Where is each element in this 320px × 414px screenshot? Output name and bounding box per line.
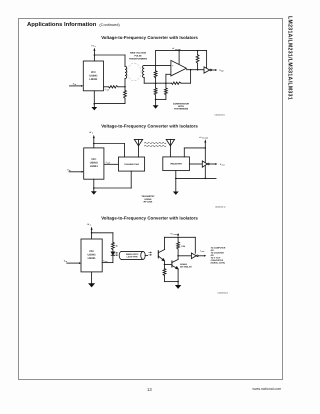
output arrow S2 — [209, 163, 217, 165]
VFC block U6 (LM331) — [81, 239, 102, 272]
input VIN S2 — [67, 168, 83, 173]
wire R1 to primary S1 — [118, 86, 126, 88]
label telemetry — [141, 195, 155, 203]
svg-text:RECEIVER: RECEIVER — [171, 163, 183, 166]
resistor R1 S1 — [109, 86, 118, 88]
resistor R2 S1 — [124, 90, 127, 98]
output node circle S3 — [197, 255, 199, 257]
wire +VS to transmitter S2 — [93, 143, 124, 157]
svg-text:FIBER OPTIC: FIBER OPTIC — [126, 253, 139, 256]
buffer U5 S2 — [202, 161, 207, 167]
label 2N3904 — [180, 263, 192, 269]
LED D1 — [111, 250, 118, 263]
wire FOUT to transmitter S2 — [104, 163, 119, 165]
schematic 3 title — [101, 216, 198, 221]
schematic 1 title — [101, 35, 198, 40]
ground rail S3 — [165, 281, 179, 283]
svg-text:TRANSFORMERS: TRANSFORMERS — [129, 57, 148, 60]
svg-text:WIDE VOLTAGE: WIDE VOLTAGE — [130, 52, 147, 55]
svg-text:3.3k: 3.3k — [181, 245, 186, 248]
svg-text:PULSE: PULSE — [134, 55, 142, 58]
label VOUT S1 — [219, 69, 224, 73]
radio waves between antennas — [144, 143, 166, 147]
wire Q1 emitter to Q2 base S3 — [165, 263, 172, 265]
rail +V pulsed S3 — [165, 232, 196, 238]
transmitter block A1 — [119, 157, 145, 171]
supply +VS node S1 — [91, 45, 95, 62]
svg-text:DS009739-11: DS009739-11 — [215, 113, 225, 116]
wire LED to FOUT S3 — [102, 262, 113, 264]
wire R4 to ground S1 — [155, 95, 157, 100]
ground G2 S1 — [153, 99, 159, 108]
op-amp U2 comparator — [171, 51, 187, 77]
output node circle S1 — [210, 69, 212, 71]
ground G6 S3 — [175, 282, 181, 289]
svg-text:−: − — [172, 75, 174, 77]
svg-text:HYSTERESIS: HYSTERESIS — [174, 107, 189, 110]
transformer T1 primary coil — [125, 66, 127, 78]
svg-text:OUT: OUT — [201, 251, 204, 253]
svg-text:LM331: LM331 — [89, 78, 98, 81]
supply +VS node S2 — [89, 131, 95, 148]
figure number DS2 — [215, 205, 225, 208]
schematic 2 title — [101, 123, 198, 128]
svg-text:DS009739-13: DS009739-13 — [218, 292, 228, 295]
VFC block U1 (LM331) — [83, 61, 103, 91]
phototransistor Q1 — [158, 237, 165, 265]
svg-text:TRANSMITTER: TRANSMITTER — [124, 163, 139, 166]
svg-text:OUT: OUT — [221, 70, 224, 73]
svg-text:OUT: OUT — [106, 90, 109, 92]
footer page number 13 — [147, 387, 152, 392]
wire feedback S1 — [181, 70, 191, 84]
transformer T1 label — [129, 52, 148, 61]
svg-text:COMPARATOR: COMPARATOR — [173, 102, 189, 105]
ground G5 S3 — [88, 283, 95, 287]
figure number DS1 — [215, 113, 225, 116]
wire minus-input jog S1 — [166, 74, 171, 83]
label fOUT S3 — [200, 249, 204, 253]
label output destination S3 — [211, 247, 226, 265]
sidebar part number LM231A/LM231/LM331A/LM331 — [286, 16, 293, 106]
VFC block U4 (LM331) — [84, 148, 104, 179]
resistor R7 hysteresis S1 — [172, 82, 182, 84]
resistor R3 S1 — [154, 71, 157, 78]
ground G3 S2 — [91, 191, 97, 194]
label FOUT S2 — [106, 161, 110, 165]
wire secondary top to comparator + S1 — [144, 64, 171, 66]
wire receiver top loop S2 — [184, 147, 206, 157]
resistor R6 pull-up S1 — [196, 51, 199, 70]
wire primary bottom S1 — [124, 79, 126, 91]
transformer T1 core (dashed) — [127, 63, 141, 81]
label comparator with hysteresis — [173, 102, 189, 110]
light arrows into Q1 — [149, 252, 152, 256]
fiber optic light pipe FO1 — [119, 251, 147, 259]
wire FOUT S1 — [104, 86, 109, 88]
svg-text:Voltage-to-Frequency Converter: Voltage-to-Frequency Converter with Isol… — [101, 216, 198, 221]
wire R3 to node S1 — [155, 78, 157, 88]
svg-text:Voltage-to-Frequency Converter: Voltage-to-Frequency Converter with Isol… — [101, 35, 198, 40]
output arrow S3 — [198, 255, 206, 257]
buffer U3 S1 — [204, 67, 210, 73]
wire secondary bottom S1 — [144, 78, 171, 84]
svg-text:LIGHT PIPE: LIGHT PIPE — [127, 256, 139, 259]
wire R5 bottom S1 — [156, 95, 166, 100]
svg-text:LM331: LM331 — [88, 257, 97, 260]
svg-text:PULSED: PULSED — [202, 138, 208, 140]
resistor R4 S1 — [154, 88, 157, 95]
wire receiver output S2 — [189, 163, 202, 165]
rail +V pulsed S1 — [156, 47, 207, 51]
wire comparator output S1 — [186, 69, 204, 71]
svg-text:S: S — [90, 224, 91, 227]
svg-text:IN: IN — [75, 83, 77, 86]
wire receiver to ground S2 — [175, 171, 177, 192]
wire rail to divider S1 — [155, 51, 157, 71]
output node circle S2 — [208, 163, 210, 165]
ground rail S2 right — [175, 178, 216, 180]
wire +VS to R8 S3 — [91, 232, 113, 242]
svg-text:USING: USING — [145, 198, 152, 201]
antenna ANT1 (transmit) — [134, 139, 142, 157]
supply +VS node S3 — [87, 223, 93, 239]
transistor Q2 (2N3904) — [172, 256, 179, 283]
resistor R9 S3 — [177, 237, 186, 256]
svg-text:S: S — [95, 45, 96, 48]
buffer U7 S3 — [191, 253, 196, 259]
transformer T1 secondary coil — [143, 65, 145, 77]
wire collector node to buffer S3 — [178, 255, 191, 257]
svg-text:RF LINK: RF LINK — [144, 201, 153, 204]
wire VFC to ground S3 — [91, 272, 93, 283]
page frame border — [18, 18, 283, 381]
label FOUT S3 — [103, 260, 107, 264]
heading Applications Information — [27, 22, 120, 28]
resistor R8 S3 — [112, 242, 119, 249]
resistor R5 S1 — [164, 83, 167, 95]
ground G4 S2 — [173, 192, 179, 195]
rail +V pulsed S2 — [199, 136, 208, 179]
antenna ANT2 (receive) — [166, 139, 174, 157]
wire VFC to ground S1 — [94, 91, 96, 105]
receiver block A2 — [163, 157, 190, 171]
wire VFC to ground rail S2 — [93, 179, 95, 191]
input VIN S3 — [64, 260, 81, 265]
output arrow S1 — [212, 69, 218, 71]
svg-text:LM331: LM331 — [90, 165, 99, 168]
wire +VS to transformer primary S1 — [94, 54, 125, 66]
svg-text:Voltage-to-Frequency Converter: Voltage-to-Frequency Converter with Isol… — [101, 123, 198, 128]
figure number DS3 — [218, 292, 228, 295]
wire rail to buffer S1 — [206, 51, 208, 68]
wire rail to buffer S3 — [194, 237, 196, 253]
resistor R10 S3 — [163, 264, 166, 281]
label FOUT S1 — [105, 88, 109, 92]
footer www.national.com — [252, 387, 281, 391]
input VIN S1 — [70, 82, 84, 87]
ground rail S2 left — [94, 171, 132, 188]
ground G1 S1 — [91, 104, 97, 111]
svg-text:OUT: OUT — [222, 164, 225, 167]
svg-text:1k: 1k — [116, 245, 119, 248]
wire R2 to ground rail S1 — [94, 98, 125, 103]
label VOUT S2 — [220, 163, 225, 167]
svg-text:TELEMETRY: TELEMETRY — [141, 195, 155, 198]
svg-text:(SERIAL DATA): (SERIAL DATA) — [211, 262, 226, 265]
svg-text:OR SIMILAR: OR SIMILAR — [180, 265, 192, 268]
svg-text:DS009739-12: DS009739-12 — [215, 205, 225, 208]
svg-text:S: S — [92, 132, 93, 135]
